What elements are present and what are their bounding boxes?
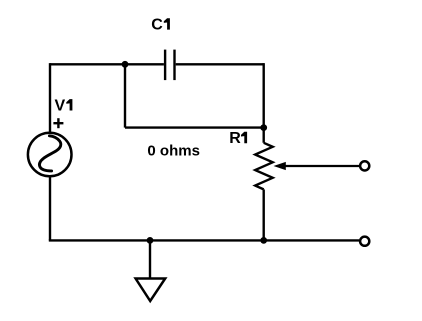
- svg-text:0 ohms: 0 ohms: [147, 143, 200, 160]
- svg-text:R: R: [229, 130, 241, 147]
- svg-text:V: V: [55, 98, 66, 115]
- svg-text:C: C: [151, 17, 163, 34]
